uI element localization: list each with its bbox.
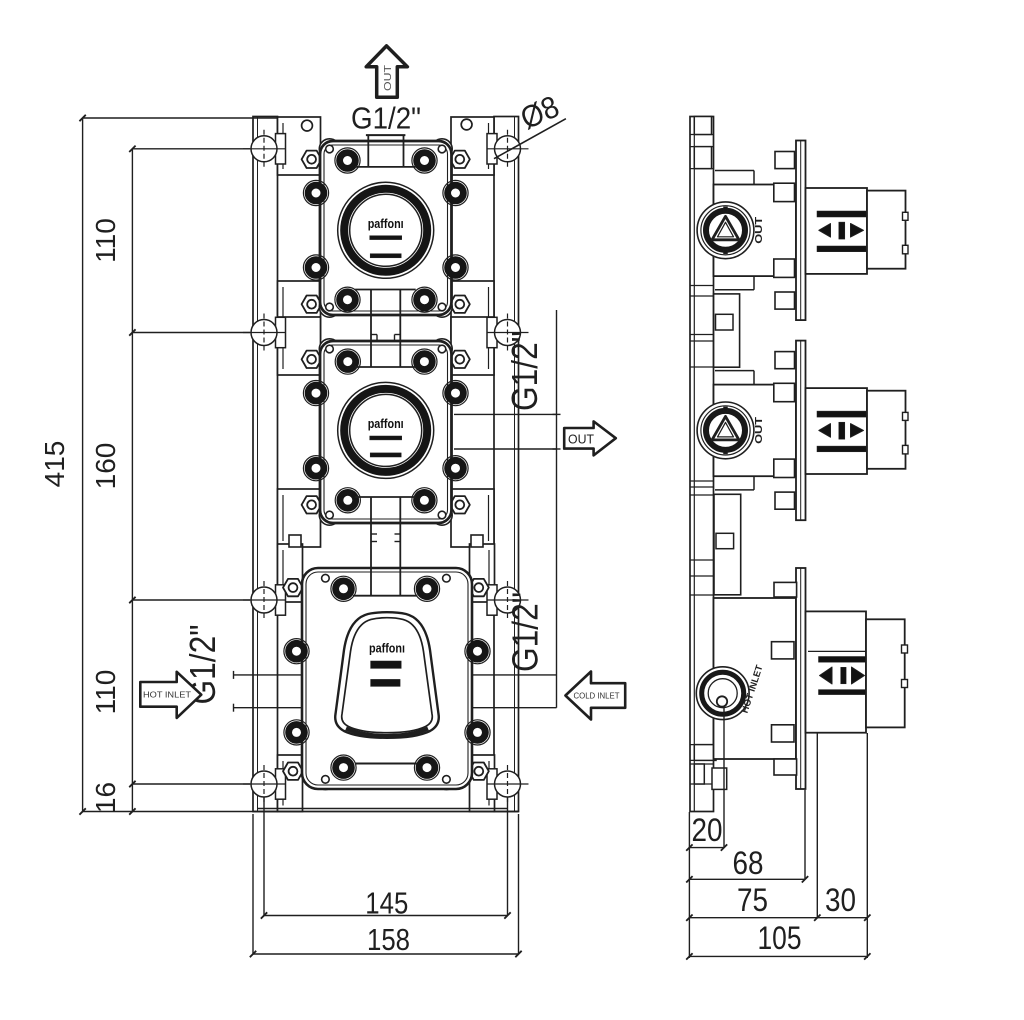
valve module top: plate [320, 141, 452, 315]
dimension 105 [689, 955, 867, 957]
side screw boss [303, 456, 328, 481]
side unit cylinder [806, 388, 868, 474]
valve module middle: ring [338, 382, 434, 478]
wall bar segment line [690, 594, 714, 596]
hex nut [302, 151, 322, 168]
svg-text:158: 158 [367, 923, 410, 957]
side unit logo circle [697, 202, 754, 259]
valve module middle: corner lobes [319, 339, 339, 359]
rail hinge block right [487, 585, 497, 615]
wall bar segment line [690, 559, 714, 561]
side unit ear top [715, 370, 754, 372]
dimension 75 [689, 917, 817, 919]
side unit ear bottom [715, 289, 754, 291]
valve module bottom: D-shaped ring inner [342, 618, 433, 733]
valve module top: ring [338, 182, 434, 278]
hex nut [302, 496, 322, 513]
side unit cylinder [806, 188, 868, 274]
bracket ear plate [278, 281, 321, 339]
screw boss [335, 488, 360, 513]
bracket ear plate [470, 544, 495, 602]
side screw boss [443, 255, 468, 280]
bracket ear plate [278, 755, 303, 812]
svg-text:HOT INLET: HOT INLET [143, 691, 191, 700]
wall bar segment line [690, 340, 714, 342]
wall bar segment line [690, 783, 714, 785]
corner hole [438, 303, 446, 311]
bracket ear plate [278, 117, 321, 175]
side screw boss [465, 639, 490, 664]
rail hinge block left [276, 769, 286, 799]
bracket ear plate [451, 317, 494, 375]
svg-text:145: 145 [365, 887, 408, 921]
mounting screw left rail [251, 587, 277, 613]
dimension chain tick line [132, 148, 250, 150]
valve module bottom: corner lobes [315, 568, 335, 588]
rail hinge block right [487, 769, 497, 799]
side screw boss [284, 720, 309, 745]
bracket ear plate [451, 489, 494, 547]
svg-text:415: 415 [39, 441, 70, 488]
bracket ear plate [278, 544, 303, 602]
svg-text:110: 110 [90, 670, 121, 715]
dimension 68 [689, 878, 805, 880]
HOT INLET arrow [140, 672, 201, 718]
side screw boss [443, 456, 468, 481]
side bottom bracket blocks [694, 745, 716, 761]
side bracket top block [694, 117, 711, 135]
corner hole [438, 145, 446, 153]
top outlet pipe G1/2 stub [366, 134, 406, 136]
corner hole [322, 574, 330, 582]
side unit body [714, 185, 797, 277]
side unit 3 label top band [819, 657, 867, 663]
corner hole [322, 776, 330, 784]
side screw boss [303, 180, 328, 205]
bracket ear plate [278, 317, 321, 375]
hex nut [450, 351, 470, 368]
side unit label top band [817, 211, 866, 217]
corner hole [326, 145, 334, 153]
side screw boss [284, 639, 309, 664]
wall bar segment line [690, 285, 714, 287]
svg-text:OUT: OUT [382, 64, 394, 91]
rail hinge block left [276, 134, 286, 164]
corner hole [326, 303, 334, 311]
mounting screw left rail [251, 320, 277, 346]
side unit bolts [775, 152, 795, 169]
rail hinge block left [276, 585, 286, 615]
screw boss [412, 488, 437, 513]
valve module top: corner lobes [319, 139, 339, 159]
side screw boss [465, 720, 490, 745]
side unit logo triangle [712, 416, 739, 440]
COLD INLET arrow [565, 672, 625, 720]
svg-text:OUT: OUT [753, 416, 765, 444]
corner hole [326, 345, 334, 353]
screw boss [412, 349, 437, 374]
side screw boss [303, 255, 328, 280]
bottom module top port shelf [353, 595, 417, 597]
wall bar segment line [690, 146, 714, 148]
wall bar segment line [690, 134, 714, 136]
side screw boss [443, 180, 468, 205]
hex nut [302, 351, 322, 368]
hex nut [283, 579, 303, 596]
side unit body [714, 385, 797, 477]
valve module bottom: plate [302, 568, 472, 789]
side connector window 2 [716, 533, 734, 548]
side connector block 2 [714, 494, 741, 595]
bracket ear plate [451, 117, 494, 175]
rail hinge block left [276, 317, 286, 347]
screw boss [335, 349, 360, 374]
svg-text:G1/2": G1/2" [504, 331, 545, 411]
side unit label bottom band [817, 246, 866, 252]
dimension 415 line [82, 118, 84, 812]
side unit 3 parting line [808, 650, 903, 652]
dimension 158 line [253, 953, 519, 955]
dimension chain tick line [132, 783, 250, 785]
dimension 158 extension lines [252, 814, 254, 954]
rail hinge block right [487, 134, 497, 164]
hot inlet port lines [233, 674, 302, 676]
side unit flange [796, 141, 806, 321]
side unit label arrows [819, 224, 831, 238]
screw boss [412, 287, 437, 312]
svg-text:G1/2": G1/2" [351, 101, 421, 136]
ear hole top-right [461, 119, 472, 130]
side unit flange [796, 341, 806, 521]
top module bottom port shelf [355, 289, 416, 291]
side unit 3 body [714, 598, 797, 759]
corner hole [438, 345, 446, 353]
side screw boss [443, 381, 468, 406]
bracket ear plate [470, 755, 495, 812]
corner hole [443, 776, 451, 784]
side unit 3 cylinder [806, 611, 867, 732]
svg-text:COLD INLET: COLD INLET [574, 692, 620, 701]
side unit logo circle [697, 402, 754, 459]
corner hole [326, 511, 334, 519]
svg-text:OUT: OUT [568, 433, 594, 447]
front view: left mounting rail [253, 117, 278, 812]
wall bar segment line [690, 295, 714, 297]
rail hinge block right [487, 317, 497, 347]
side unit 3 inlet circle [696, 667, 749, 720]
wall bar segment line [690, 763, 714, 765]
dimension 145 extension lines [263, 797, 265, 916]
hex nut [283, 763, 303, 780]
screw boss [331, 576, 356, 601]
svg-text:30: 30 [825, 882, 856, 918]
wall bar segment line [690, 168, 714, 170]
small square cutout right [471, 535, 483, 547]
wall bar segment line [690, 486, 714, 488]
wall bar segment line [690, 334, 714, 336]
corner hole [438, 511, 446, 519]
middle module top port shelf [355, 366, 416, 368]
side unit bolts [775, 352, 795, 369]
screw boss [412, 148, 437, 173]
side unit 3 bolts [774, 582, 797, 597]
side unit 3 flange [796, 568, 806, 789]
middle module bottom port shelf [355, 496, 416, 498]
bracket ear plate [278, 489, 321, 547]
screw boss [335, 287, 360, 312]
outlet port mid: extension lines [454, 413, 557, 415]
side unit label arrows [819, 424, 831, 438]
mounting screw left rail [251, 771, 277, 797]
bracket ear plate [451, 281, 494, 339]
screw boss [335, 148, 360, 173]
OUT arrow top [366, 46, 407, 97]
mounting screw right rail [495, 587, 521, 613]
bottom module bottom edge center [355, 763, 417, 765]
svg-text:OUT: OUT [753, 216, 765, 244]
wall bar segment line [690, 759, 714, 761]
screw boss [414, 576, 439, 601]
side dim extension lines [688, 812, 690, 958]
hex nut [450, 151, 470, 168]
mounting screw left rail [251, 136, 277, 162]
pipe between top and middle module [370, 290, 372, 368]
ear hole top-left [302, 120, 313, 131]
side connector block 1 [714, 294, 740, 367]
side unit label top band [817, 411, 866, 417]
valve module bottom: D-ring bottom band [346, 729, 428, 737]
mounting screw right rail [495, 136, 521, 162]
dimension 30 [817, 917, 867, 919]
wall bar segment line [690, 366, 714, 368]
cold inlet port lines [472, 674, 557, 676]
top module top port shelf [355, 166, 416, 168]
side unit ear top [715, 170, 754, 172]
OUT arrow right [564, 421, 616, 455]
hex nut [469, 763, 489, 780]
svg-text:75: 75 [737, 882, 768, 918]
svg-text:paffonı: paffonı [368, 217, 404, 231]
dimension chain tick line [132, 332, 250, 334]
mounting screw right rail [495, 771, 521, 797]
valve module middle: plate [320, 341, 452, 523]
side view wall rail bar [690, 117, 714, 812]
hex nut [450, 296, 470, 313]
svg-text:16: 16 [90, 782, 121, 813]
side unit logo triangle [712, 216, 739, 240]
side unit end block [867, 191, 906, 269]
valve module bottom: D-shaped ring outer [335, 612, 439, 738]
hex nut [302, 296, 322, 313]
diameter 8 leader [494, 119, 566, 159]
side unit label bottom band [817, 446, 866, 452]
dimension 145 line [264, 915, 508, 917]
svg-text:160: 160 [90, 443, 121, 490]
wall bar segment line [690, 494, 714, 496]
svg-text:105: 105 [758, 920, 802, 956]
svg-text:110: 110 [90, 218, 121, 263]
front view: right mounting rail [494, 117, 519, 812]
mounting screw right rail [495, 320, 521, 346]
assembly bottom edge [257, 808, 508, 810]
wall bar segment line [690, 575, 714, 577]
side screw boss [303, 381, 328, 406]
wall bar segment line [690, 744, 714, 746]
dimension chain tick line [132, 599, 250, 601]
side unit end block [867, 391, 906, 469]
wall bar segment line [690, 480, 714, 482]
pipe between middle and bottom module [370, 497, 372, 596]
svg-text:20: 20 [692, 812, 723, 848]
side unit ear bottom [715, 489, 754, 491]
svg-text:68: 68 [733, 845, 764, 881]
dimension 20 [689, 847, 724, 849]
small square cutout left [289, 535, 301, 547]
dimension chain line [131, 149, 133, 812]
svg-text:paffonı: paffonı [369, 642, 405, 656]
svg-text:G1/2": G1/2" [505, 592, 546, 672]
side connector window 1 [716, 314, 734, 330]
side unit 3 label arrows [820, 667, 833, 684]
screw boss [414, 755, 439, 780]
side unit 3 end block [866, 619, 905, 727]
corner hole [443, 574, 451, 582]
side unit 3 label bottom band [819, 690, 867, 695]
svg-text:paffonı: paffonı [368, 417, 404, 431]
screw boss [331, 755, 356, 780]
hex nut [469, 579, 489, 596]
hex nut [450, 496, 470, 513]
